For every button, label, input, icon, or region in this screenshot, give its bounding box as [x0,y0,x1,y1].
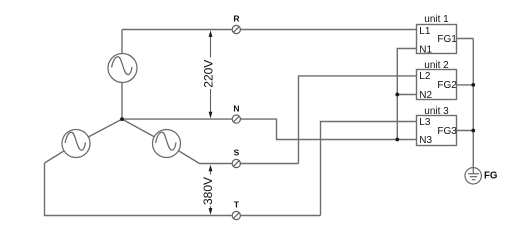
svg-text:unit 1: unit 1 [424,14,449,25]
ac source G2 [62,130,90,158]
unit 1 box U1 [417,25,457,54]
junction dot N3 line [395,138,399,142]
wire FG2 to bus [457,84,474,86]
svg-text:unit 3: unit 3 [424,106,449,117]
terminal S [232,159,240,167]
wire FG bus vertical [472,39,474,168]
dimension arrow 220V [209,30,213,118]
svg-text:L3: L3 [419,117,431,128]
svg-text:R: R [233,13,239,23]
svg-text:L2: L2 [419,71,431,82]
svg-text:FG2: FG2 [437,80,457,91]
terminal N [232,115,240,123]
svg-text:FG3: FG3 [437,126,457,137]
wire S line [200,163,299,165]
svg-text:S: S [234,148,240,158]
junction dot FG2 bus [471,83,475,87]
wire R line [122,29,417,31]
svg-text:220V: 220V [201,60,215,88]
svg-text:N1: N1 [419,44,432,55]
terminal T [232,211,240,219]
junction dot N2 branch [395,93,399,97]
svg-text:380V: 380V [201,177,215,205]
unit 2 box U2 [417,70,457,100]
svg-text:L1: L1 [419,26,431,37]
svg-text:N3: N3 [419,135,432,146]
terminal R [232,25,240,33]
wire source G3 to S line [167,144,200,164]
svg-text:N2: N2 [419,90,432,101]
svg-text:FG1: FG1 [437,34,457,45]
wire junction to source G2 [76,119,122,143]
wire N line [122,119,417,139]
wire T riser to L3 [321,122,417,216]
unit 3 box U3 [417,116,457,146]
wire phase1 vertical through source G1 [121,30,123,120]
wire N2 stub [397,94,416,96]
wire S riser to L2 [299,76,417,164]
ground symbol FG [465,168,481,184]
svg-text:FG: FG [484,170,497,181]
junction dot FG3 bus [471,129,475,133]
svg-text:T: T [234,200,240,210]
svg-text:unit 2: unit 2 [424,60,449,71]
wire FG3 to bus [457,130,474,132]
ac source G3 [153,130,181,158]
ac source G1 [108,54,137,83]
wire T line [45,163,321,216]
wire source G2 to lower-left corner [45,144,77,164]
junction dot star point [120,117,124,121]
wire FG1 to bus [457,38,474,40]
dimension arrow 380V [209,165,213,215]
wire N riser to N1 [397,49,416,140]
svg-text:N: N [233,104,239,114]
wire junction to source G3 [122,119,167,143]
